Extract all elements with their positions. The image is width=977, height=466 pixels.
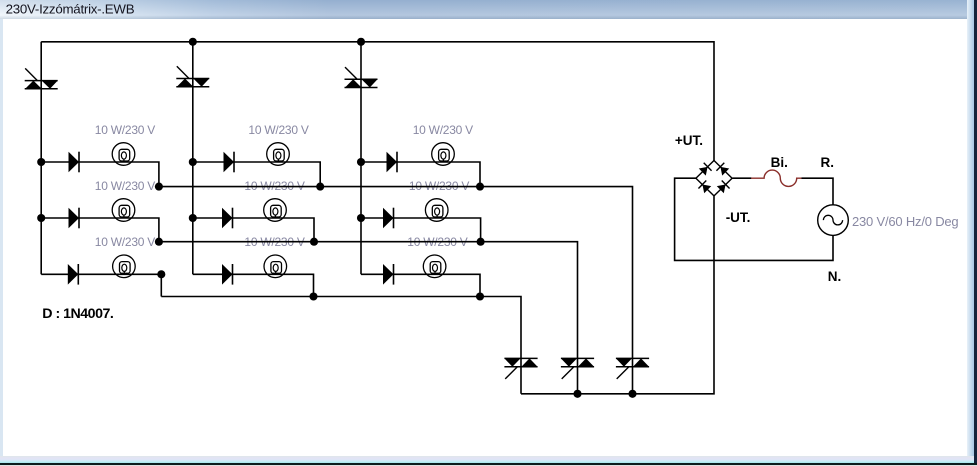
- svg-text:230 V/60 Hz/0 Deg: 230 V/60 Hz/0 Deg: [852, 214, 958, 229]
- svg-text:10 W/230 V: 10 W/230 V: [95, 179, 155, 193]
- svg-text:230V-Izzómátrix-.EWB: 230V-Izzómátrix-.EWB: [6, 1, 135, 16]
- svg-text:10 W/230 V: 10 W/230 V: [95, 235, 155, 249]
- svg-text:Bi.: Bi.: [771, 155, 788, 170]
- svg-text:R.: R.: [821, 155, 835, 170]
- svg-text:10 W/230 V: 10 W/230 V: [248, 123, 308, 137]
- svg-text:10 W/230 V: 10 W/230 V: [413, 123, 473, 137]
- svg-text:N.: N.: [828, 269, 842, 284]
- svg-text:10 W/230 V: 10 W/230 V: [95, 123, 155, 137]
- svg-text:D : 1N4007.: D : 1N4007.: [42, 306, 113, 322]
- svg-text:+UT.: +UT.: [675, 133, 703, 148]
- svg-text:-UT.: -UT.: [726, 210, 751, 225]
